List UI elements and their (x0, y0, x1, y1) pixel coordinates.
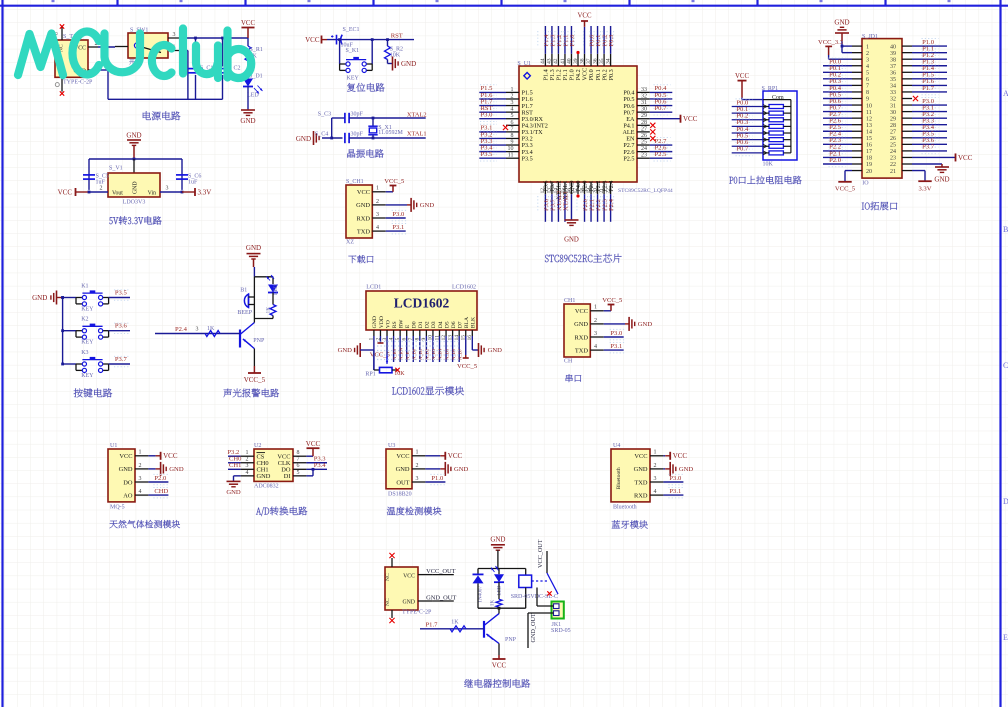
svg-text:VCC_3.3: VCC_3.3 (818, 39, 844, 46)
svg-text:37: 37 (586, 58, 592, 64)
svg-text:43: 43 (547, 58, 553, 64)
svg-text:LED: LED (247, 93, 259, 99)
svg-text:GND: GND (638, 321, 653, 328)
svg-text:37: 37 (890, 64, 896, 70)
svg-text:LCD1602: LCD1602 (452, 285, 476, 291)
svg-text:33: 33 (641, 87, 647, 93)
svg-text:4: 4 (594, 344, 597, 350)
svg-text:D4: D4 (438, 321, 444, 328)
svg-text:STC89C52RC_LQFP44: STC89C52RC_LQFP44 (618, 188, 673, 194)
svg-text:GND: GND (246, 244, 261, 252)
svg-text:N_D3: N_D3 (431, 348, 436, 360)
svg-text:B1: B1 (240, 288, 247, 294)
svg-text:OUT: OUT (396, 479, 409, 486)
svg-text:2: 2 (246, 457, 249, 463)
svg-text:10K: 10K (763, 162, 774, 168)
svg-text:CH: CH (564, 359, 573, 365)
svg-text:2: 2 (376, 199, 379, 205)
svg-text:18: 18 (866, 156, 872, 162)
svg-text:24: 24 (890, 149, 896, 155)
svg-text:Vin: Vin (148, 191, 156, 197)
svg-text:DI: DI (284, 473, 291, 480)
svg-text:D6: D6 (451, 321, 457, 328)
svg-text:LCD1: LCD1 (366, 285, 381, 291)
svg-text:P3.1: P3.1 (392, 224, 404, 231)
svg-text:20: 20 (866, 169, 872, 175)
svg-text:40: 40 (890, 44, 896, 50)
svg-text:26: 26 (641, 133, 647, 139)
svg-text:S_C3: S_C3 (318, 112, 331, 118)
svg-text:P3.1: P3.1 (610, 343, 622, 350)
svg-text:3: 3 (376, 212, 379, 218)
svg-text:A: A (1003, 89, 1008, 98)
svg-text:1: 1 (376, 186, 379, 192)
svg-text:3: 3 (173, 32, 176, 38)
svg-text:3: 3 (416, 476, 419, 482)
svg-text:S_U1: S_U1 (517, 61, 531, 67)
svg-text:VCC_5: VCC_5 (602, 297, 623, 304)
svg-text:VCC: VCC (403, 574, 415, 580)
svg-text:10: 10 (508, 146, 514, 152)
svg-text:D2: D2 (425, 321, 431, 328)
svg-text:DO: DO (123, 479, 133, 486)
svg-text:GND: GND (401, 60, 416, 68)
svg-text:RP1: RP1 (365, 371, 375, 377)
svg-text:P3.4: P3.4 (314, 462, 327, 469)
svg-text:XZ: XZ (346, 240, 354, 246)
svg-text:KEY: KEY (347, 76, 360, 82)
svg-text:VCC_OUT: VCC_OUT (537, 539, 544, 568)
svg-text:KEY: KEY (81, 373, 94, 379)
svg-text:GND: GND (834, 19, 849, 27)
svg-text:GND_OUT: GND_OUT (530, 613, 537, 642)
svg-text:9: 9 (866, 97, 869, 103)
svg-text:4: 4 (654, 489, 657, 495)
svg-text:N_D6: N_D6 (451, 348, 456, 360)
svg-text:VCC: VCC (673, 452, 688, 460)
svg-text:S_RP1: S_RP1 (762, 86, 779, 92)
svg-text:LDO3V3: LDO3V3 (123, 200, 146, 206)
svg-text:K2: K2 (81, 317, 88, 323)
svg-text:P3.1: P3.1 (669, 488, 681, 495)
svg-text:GND: GND (396, 466, 410, 473)
svg-text:10K: 10K (390, 53, 401, 59)
svg-text:CH1: CH1 (564, 298, 575, 304)
svg-text:GND: GND (490, 536, 505, 544)
svg-text:7: 7 (297, 457, 300, 463)
svg-text:BLA: BLA (464, 316, 470, 328)
svg-text:VCC: VCC (578, 13, 592, 20)
svg-text:3: 3 (654, 476, 657, 482)
svg-text:19: 19 (866, 162, 872, 168)
svg-text:LED: LED (273, 284, 279, 295)
svg-text:NC: NC (385, 573, 391, 581)
svg-text:VCC: VCC (163, 452, 178, 460)
svg-text:Vout: Vout (112, 191, 123, 197)
svg-text:GND: GND (226, 489, 241, 496)
svg-text:6: 6 (297, 463, 300, 469)
svg-text:VO: VO (385, 320, 391, 328)
svg-text:RW: RW (398, 319, 404, 328)
svg-text:GND: GND (574, 321, 588, 328)
svg-text:VCC: VCC (306, 440, 321, 448)
svg-text:3: 3 (139, 476, 142, 482)
svg-text:1K: 1K (207, 326, 215, 332)
svg-text:P2.5: P2.5 (655, 151, 668, 158)
svg-text:S_C4: S_C4 (315, 131, 328, 137)
svg-text:1: 1 (511, 87, 514, 93)
svg-text:BLK: BLK (471, 316, 477, 328)
svg-text:5: 5 (866, 71, 869, 77)
svg-text:RXD: RXD (634, 492, 648, 499)
svg-text:VCC_5: VCC_5 (384, 178, 405, 185)
svg-text:N_D1: N_D1 (418, 348, 423, 360)
svg-text:P1.7: P1.7 (426, 622, 439, 629)
svg-text:Com: Com (772, 95, 784, 101)
svg-text:P3.6: P3.6 (115, 323, 128, 330)
svg-text:RS: RS (392, 321, 398, 328)
svg-text:28: 28 (641, 120, 647, 126)
svg-text:7: 7 (866, 84, 869, 90)
svg-text:1: 1 (139, 450, 142, 456)
svg-text:3.3V: 3.3V (918, 185, 931, 192)
svg-text:KEY: KEY (81, 340, 94, 346)
svg-text:P3.0: P3.0 (610, 330, 623, 337)
svg-text:P0.3: P0.3 (608, 69, 615, 80)
svg-text:TYPE-C-2P: TYPE-C-2P (402, 610, 432, 616)
svg-text:NC: NC (385, 598, 391, 606)
svg-text:VCC: VCC (634, 453, 647, 460)
svg-text:N_D2: N_D2 (425, 348, 430, 360)
svg-text:PNP: PNP (253, 338, 265, 344)
svg-text:U3: U3 (388, 443, 395, 449)
svg-text:D7: D7 (457, 321, 463, 328)
svg-text:D0: D0 (412, 321, 418, 328)
svg-text:VDD: VDD (379, 316, 385, 328)
svg-text:VCC: VCC (735, 73, 749, 80)
svg-text:9: 9 (511, 140, 514, 146)
svg-text:36: 36 (890, 71, 896, 77)
svg-text:KEY: KEY (81, 306, 94, 312)
svg-text:TYPE-C-2P: TYPE-C-2P (63, 80, 93, 86)
svg-text:GND: GND (32, 294, 47, 302)
svg-text:IO: IO (862, 180, 869, 186)
svg-text:VCC_OUT: VCC_OUT (426, 568, 456, 575)
svg-text:D: D (1003, 497, 1008, 506)
svg-text:VCC: VCC (58, 188, 73, 196)
svg-text:C2: C2 (234, 66, 241, 72)
svg-text:1K: 1K (266, 307, 272, 314)
svg-text:VCC: VCC (357, 189, 370, 196)
svg-text:D1: D1 (418, 321, 424, 328)
svg-text:GND: GND (119, 466, 133, 473)
svg-text:GND: GND (126, 132, 141, 140)
svg-text:P1.7: P1.7 (922, 85, 935, 92)
svg-text:25: 25 (890, 143, 896, 149)
svg-text:3: 3 (196, 327, 199, 333)
svg-text:GND: GND (257, 473, 271, 480)
svg-text:1uF: 1uF (188, 180, 198, 186)
svg-text:40: 40 (566, 58, 572, 64)
svg-text:P3.5: P3.5 (115, 290, 128, 297)
svg-text:XTAL2: XTAL2 (407, 112, 427, 119)
svg-text:VCC_5: VCC_5 (244, 376, 266, 384)
svg-text:15: 15 (866, 136, 872, 142)
svg-text:17: 17 (866, 149, 872, 155)
svg-text:22: 22 (890, 162, 896, 168)
svg-text:ADC0832: ADC0832 (254, 484, 279, 490)
svg-text:26: 26 (890, 136, 896, 142)
svg-text:VCC: VCC (241, 20, 255, 27)
svg-text:8: 8 (297, 450, 300, 456)
svg-text:24: 24 (641, 146, 647, 152)
svg-text:2: 2 (139, 463, 142, 469)
svg-text:RST: RST (391, 32, 403, 39)
svg-text:E: E (405, 324, 411, 328)
svg-text:1: 1 (654, 450, 657, 456)
svg-text:32: 32 (890, 97, 896, 103)
svg-text:4: 4 (866, 64, 869, 70)
svg-text:1K: 1K (490, 600, 496, 607)
svg-text:GND: GND (240, 117, 255, 125)
svg-text:3: 3 (511, 100, 514, 106)
svg-text:38: 38 (890, 57, 896, 63)
svg-text:23: 23 (641, 153, 647, 159)
svg-text:41: 41 (560, 58, 566, 64)
svg-text:VCC: VCC (305, 36, 320, 44)
svg-text:U4: U4 (613, 443, 620, 449)
svg-text:P2.0: P2.0 (154, 475, 167, 482)
svg-text:8: 8 (511, 133, 514, 139)
svg-text:11: 11 (508, 153, 514, 159)
svg-text:34: 34 (605, 58, 611, 64)
svg-text:P2.4: P2.4 (175, 326, 188, 333)
svg-text:31: 31 (641, 100, 647, 106)
svg-text:N_D5: N_D5 (444, 348, 449, 360)
svg-text:4: 4 (246, 470, 249, 476)
svg-text:39: 39 (890, 51, 896, 57)
svg-text:30: 30 (890, 110, 896, 116)
svg-text:GND: GND (338, 347, 353, 354)
svg-text:3.3V: 3.3V (198, 188, 212, 196)
svg-text:C: C (1003, 361, 1008, 370)
svg-text:8: 8 (866, 90, 869, 96)
svg-text:27: 27 (890, 129, 896, 135)
svg-text:P2.5: P2.5 (623, 155, 634, 162)
svg-text:MQ-5: MQ-5 (110, 504, 125, 510)
svg-text:D5: D5 (444, 321, 450, 328)
svg-text:12: 12 (866, 116, 872, 122)
svg-text:1uF: 1uF (96, 180, 106, 186)
svg-text:38: 38 (579, 58, 585, 64)
svg-text:P3.0: P3.0 (481, 112, 494, 119)
svg-text:XTAL1: XTAL1 (407, 131, 427, 138)
svg-text:RXD: RXD (357, 215, 371, 222)
svg-text:7: 7 (511, 126, 514, 132)
svg-text:28: 28 (890, 123, 896, 129)
svg-text:TXD: TXD (634, 479, 648, 486)
svg-text:BEEP: BEEP (237, 310, 252, 316)
svg-text:29: 29 (890, 116, 896, 122)
svg-text:Bluetooth: Bluetooth (616, 467, 622, 489)
svg-text:PNP: PNP (505, 637, 517, 643)
svg-text:30: 30 (641, 107, 647, 113)
svg-text:11: 11 (866, 110, 872, 116)
svg-text:36: 36 (592, 58, 598, 64)
svg-text:P3.7: P3.7 (922, 144, 935, 151)
svg-text:P3.0: P3.0 (669, 475, 682, 482)
svg-text:CHD: CHD (154, 488, 168, 495)
svg-text:10: 10 (866, 103, 872, 109)
svg-text:1: 1 (866, 44, 869, 50)
svg-text:N_E: N_E (405, 351, 410, 360)
svg-text:25: 25 (641, 140, 647, 146)
svg-text:GND: GND (402, 600, 415, 606)
svg-text:E: E (1003, 633, 1008, 642)
svg-text:GND: GND (169, 466, 184, 473)
svg-text:P3.5: P3.5 (481, 151, 494, 158)
svg-text:N_D0: N_D0 (411, 348, 416, 360)
svg-text:1: 1 (246, 450, 249, 456)
svg-text:5: 5 (511, 113, 514, 119)
svg-text:23: 23 (890, 156, 896, 162)
svg-text:SRD-05: SRD-05 (551, 628, 571, 634)
svg-text:S_V1: S_V1 (109, 166, 123, 172)
svg-text:CH1: CH1 (229, 462, 241, 469)
svg-text:GND: GND (356, 202, 370, 209)
svg-text:VCC_5: VCC_5 (457, 363, 478, 370)
svg-text:P3.0: P3.0 (392, 211, 405, 218)
svg-text:6: 6 (511, 120, 514, 126)
svg-text:GND: GND (934, 176, 949, 184)
svg-text:3: 3 (866, 57, 869, 63)
svg-text:1: 1 (416, 450, 419, 456)
svg-text:N_RW: N_RW (398, 347, 403, 360)
svg-text:VCC: VCC (448, 452, 463, 460)
svg-text:N_D4: N_D4 (438, 348, 443, 360)
svg-text:2: 2 (866, 51, 869, 57)
svg-text:VCC: VCC (683, 115, 698, 123)
svg-text:3: 3 (166, 186, 169, 192)
svg-text:P3.5: P3.5 (522, 155, 533, 162)
svg-text:GND: GND (679, 466, 694, 473)
svg-text:5: 5 (297, 470, 300, 476)
svg-text:1K: 1K (451, 620, 459, 626)
svg-text:U1: U1 (110, 443, 117, 449)
svg-text:P1.0: P1.0 (431, 475, 444, 482)
svg-text:2: 2 (416, 463, 419, 469)
svg-text:AO: AO (123, 492, 133, 499)
svg-text:10K: 10K (394, 371, 405, 377)
svg-text:K1: K1 (81, 283, 88, 289)
svg-text:VCC: VCC (575, 308, 588, 315)
svg-text:N_D7: N_D7 (457, 348, 462, 360)
svg-text:P2.0: P2.0 (829, 157, 842, 164)
svg-text:GND: GND (634, 466, 648, 473)
svg-text:3: 3 (246, 463, 249, 469)
svg-text:N_RS: N_RS (392, 348, 397, 360)
svg-text:D3: D3 (431, 321, 437, 328)
svg-text:4: 4 (376, 225, 379, 231)
svg-text:33: 33 (890, 90, 896, 96)
svg-text:RXD: RXD (575, 334, 589, 341)
svg-text:32: 32 (641, 93, 647, 99)
svg-text:VCC: VCC (119, 453, 132, 460)
svg-text:2: 2 (100, 186, 103, 192)
svg-text:LCD1602: LCD1602 (394, 296, 450, 311)
svg-text:S_EC1: S_EC1 (343, 27, 360, 33)
svg-text:P3.7: P3.7 (115, 356, 128, 363)
svg-text:GND: GND (372, 316, 378, 328)
svg-text:21: 21 (890, 169, 896, 175)
svg-text:39: 39 (573, 58, 579, 64)
svg-text:Bluetooth: Bluetooth (613, 504, 637, 510)
svg-text:2: 2 (511, 93, 514, 99)
svg-text:29: 29 (641, 113, 647, 119)
svg-text:GND_OUT: GND_OUT (426, 594, 456, 601)
svg-text:GND: GND (454, 466, 469, 473)
svg-text:GND: GND (296, 135, 311, 143)
svg-text:B: B (1003, 225, 1008, 234)
svg-text:4: 4 (139, 489, 142, 495)
svg-text:35: 35 (890, 77, 896, 83)
svg-text:TXD: TXD (575, 347, 589, 354)
svg-text:GND: GND (133, 181, 139, 194)
svg-text:1: 1 (594, 305, 597, 311)
svg-text:2: 2 (594, 318, 597, 324)
svg-text:34: 34 (890, 84, 896, 90)
svg-text:TXD: TXD (357, 228, 371, 235)
svg-text:30pF: 30pF (351, 112, 364, 118)
svg-text:S_JD1: S_JD1 (862, 34, 878, 40)
svg-text:U2: U2 (254, 443, 261, 449)
svg-text:GND: GND (420, 202, 435, 209)
svg-text:2: 2 (654, 463, 657, 469)
svg-text:GND: GND (564, 237, 579, 244)
svg-text:DS18B20: DS18B20 (388, 491, 412, 497)
svg-text:P2.4: P2.4 (608, 181, 615, 192)
svg-text:31: 31 (890, 103, 896, 109)
svg-text:13: 13 (866, 123, 872, 129)
svg-text:S_K1: S_K1 (346, 48, 360, 54)
svg-text:P0.7: P0.7 (736, 146, 749, 153)
svg-text:27: 27 (641, 126, 647, 132)
svg-text:35: 35 (599, 58, 605, 64)
svg-text:4: 4 (511, 107, 514, 113)
svg-text:11.0592M: 11.0592M (378, 130, 403, 136)
svg-text:GND: GND (488, 347, 503, 354)
svg-text:30pF: 30pF (351, 131, 364, 137)
svg-text:VCC: VCC (958, 154, 973, 162)
svg-text:K3: K3 (81, 350, 88, 356)
svg-text:VCC: VCC (396, 453, 409, 460)
svg-text:16: 16 (866, 143, 872, 149)
svg-text:44: 44 (540, 58, 546, 64)
svg-text:6: 6 (866, 77, 869, 83)
svg-text:14: 14 (866, 129, 872, 135)
svg-text:VCC: VCC (492, 662, 507, 670)
svg-text:VCC_5: VCC_5 (835, 185, 856, 192)
svg-text:42: 42 (553, 58, 559, 64)
svg-text:P0.7: P0.7 (655, 105, 668, 112)
svg-text:3: 3 (594, 331, 597, 337)
svg-text:S_CH1: S_CH1 (346, 179, 364, 185)
